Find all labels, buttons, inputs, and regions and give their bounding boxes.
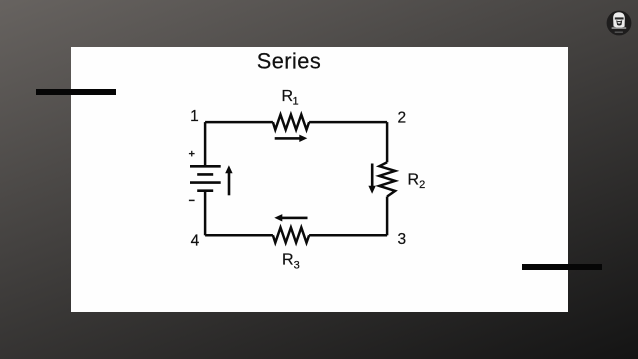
- battery B1 plates: [190, 166, 221, 190]
- svg-text:3: 3: [398, 231, 407, 248]
- decorative left black bar: [36, 89, 116, 96]
- resistor R3: [273, 228, 309, 243]
- wire bottom left (R3 to node 4): [205, 234, 273, 237]
- battery minus sign: [189, 199, 195, 201]
- wire bottom right (node 3 to R3): [309, 234, 387, 237]
- wire top left (node 1 to R1): [205, 121, 273, 124]
- svg-text:1: 1: [190, 108, 199, 125]
- svg-text:R2: R2: [408, 171, 426, 191]
- svg-text:4: 4: [191, 233, 200, 250]
- current arrow right (below R1): [275, 135, 308, 142]
- wire right lower (R2 to node 3): [386, 197, 389, 236]
- svg-text:R3: R3: [282, 252, 300, 272]
- current arrow down (beside R2): [368, 164, 375, 194]
- white slide panel: [71, 47, 568, 312]
- wire top right (R1 to node 2): [309, 121, 387, 124]
- watermark logo (avatar badge): [607, 11, 632, 36]
- svg-text:R1: R1: [282, 88, 299, 108]
- wire left upper (battery to node 1): [204, 122, 207, 166]
- battery plus sign: [189, 151, 195, 157]
- svg-text:Series: Series: [257, 49, 321, 74]
- decorative right black bar: [522, 264, 602, 271]
- resistor R2: [379, 162, 395, 196]
- current arrow left (above R3): [274, 214, 307, 221]
- resistor R1: [273, 115, 309, 130]
- wire left lower (node 4 to battery): [204, 191, 207, 236]
- current arrow up (beside battery): [225, 165, 232, 195]
- wire right upper (node 2 to R2): [386, 122, 389, 162]
- svg-text:2: 2: [398, 110, 407, 127]
